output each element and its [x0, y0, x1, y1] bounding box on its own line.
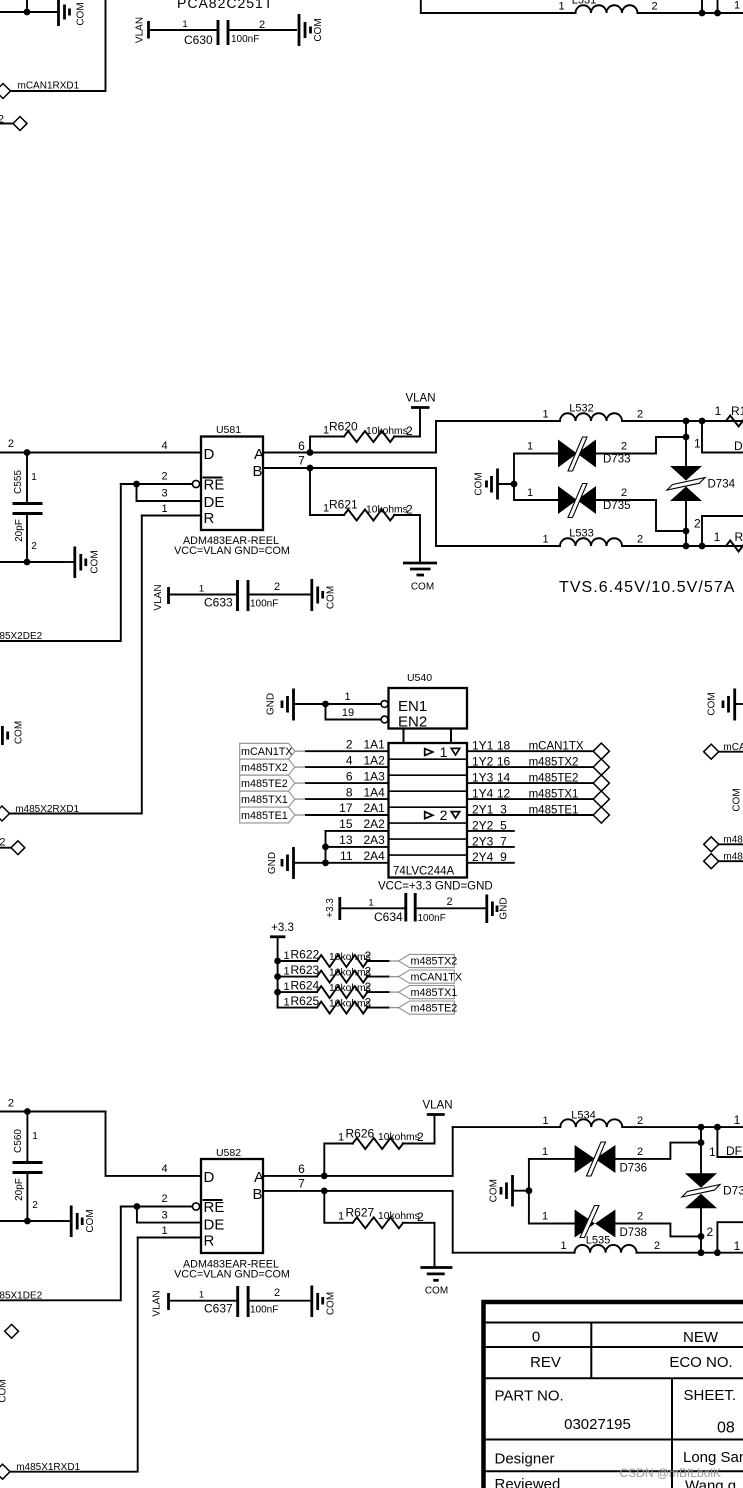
- wire 1Y4 to diamond: [467, 798, 593, 800]
- svg-text:2: 2: [446, 896, 452, 908]
- inductor L533: [542, 528, 643, 547]
- svg-text:1: 1: [734, 1113, 741, 1127]
- svg-text:2: 2: [406, 424, 413, 438]
- svg-text:10kohms: 10kohms: [366, 426, 408, 437]
- junction dot A: [321, 1173, 328, 1180]
- IC U540 main box: [389, 743, 468, 878]
- capacitor C634 100nF: [368, 893, 452, 924]
- TVS diode D737 (vertical): [682, 1127, 743, 1253]
- svg-text:COM: COM: [326, 1292, 337, 1315]
- svg-text:R620: R620: [329, 420, 358, 434]
- ground COM (rotated, left of D736/D738): [489, 1175, 513, 1207]
- stub 2Y3: [467, 846, 514, 848]
- svg-text:RE: RE: [204, 477, 225, 494]
- wire D pin jog: [106, 1112, 202, 1176]
- wire: [169, 594, 238, 596]
- svg-text:D: D: [204, 1169, 215, 1186]
- resistor Rxxx (cut at right, bottom): [714, 530, 743, 552]
- junction dot: [683, 528, 690, 535]
- power VLAN (C633 left): [153, 584, 169, 610]
- svg-text:C637: C637: [204, 1302, 233, 1316]
- wire: [11, 0, 106, 91]
- wire: [169, 1300, 238, 1302]
- svg-text:U582: U582: [216, 1147, 241, 1159]
- net flag m485TX2: [240, 759, 295, 775]
- wire EN1: [295, 703, 382, 705]
- wire: [340, 907, 406, 909]
- svg-text:PART NO.: PART NO.: [495, 1388, 564, 1405]
- wire 2Y1 to diamond: [467, 814, 593, 816]
- stub 2Y4: [467, 862, 514, 864]
- junction dot: [24, 1218, 31, 1225]
- wire (net to D pin, from left edge): [0, 452, 201, 454]
- svg-text:11: 11: [340, 849, 353, 863]
- wire A net: [263, 1127, 453, 1176]
- svg-text:D734: D734: [708, 479, 736, 491]
- junction dot: [24, 1108, 31, 1115]
- wire: [0, 561, 62, 563]
- svg-text:1: 1: [338, 1211, 344, 1223]
- svg-text:2: 2: [637, 1211, 643, 1223]
- IC U581 ADM483EAR-REEL: [174, 424, 290, 557]
- svg-text:15: 15: [339, 817, 353, 831]
- svg-text:D735: D735: [603, 500, 631, 512]
- svg-text:C630: C630: [184, 33, 213, 47]
- svg-text:m485TE2: m485TE2: [529, 773, 579, 785]
- wire: [637, 1252, 743, 1254]
- inductor L534: [542, 1110, 643, 1128]
- svg-text:08: 08: [717, 1420, 735, 1437]
- junction dot B: [307, 465, 314, 472]
- IC U582 ADM483EAR-REEL: [174, 1147, 290, 1281]
- svg-text:DE: DE: [204, 1217, 225, 1234]
- resistor R1xx (cut at right): [715, 404, 743, 427]
- svg-text:1: 1: [542, 1146, 548, 1158]
- svg-text:1: 1: [284, 950, 290, 962]
- svg-text:COM: COM: [85, 1209, 96, 1232]
- svg-text:m485TE2: m485TE2: [241, 778, 288, 790]
- ground COM (rotated, right of C630): [299, 14, 324, 46]
- wire RE: [121, 1206, 193, 1208]
- svg-text:2: 2: [365, 949, 372, 963]
- svg-text:1: 1: [558, 1, 564, 13]
- svg-text:VLAN: VLAN: [135, 17, 146, 43]
- svg-text:3: 3: [162, 488, 168, 500]
- power VLAN (C637 left): [152, 1290, 169, 1316]
- svg-text:1: 1: [199, 584, 204, 595]
- wire (top-right channel, cut off): [421, 0, 576, 13]
- svg-text:1: 1: [199, 1290, 204, 1301]
- svg-text:R621: R621: [329, 498, 358, 512]
- junction dots: [698, 1124, 705, 1131]
- svg-text:m485TE2: m485TE2: [411, 1002, 458, 1014]
- svg-text:1: 1: [715, 404, 722, 418]
- junction dot: [698, 1139, 705, 1146]
- svg-text:1: 1: [542, 409, 548, 421]
- svg-text:R: R: [735, 530, 743, 544]
- svg-text:6: 6: [298, 439, 305, 453]
- junction dot: [134, 1203, 141, 1210]
- wire: [228, 29, 296, 31]
- capacitor C637 100nF: [199, 1286, 280, 1317]
- wire: [622, 545, 743, 547]
- ground COM (rotated, below C555): [62, 547, 101, 579]
- svg-text:COM: COM: [326, 586, 337, 609]
- resistor R622 10kohms: [278, 948, 399, 968]
- svg-text:B: B: [253, 1186, 263, 1203]
- TVS diode D735: [514, 484, 686, 532]
- svg-text:R: R: [204, 1233, 215, 1250]
- svg-text:1A1: 1A1: [364, 737, 386, 751]
- svg-text:1: 1: [714, 530, 721, 544]
- svg-text:2: 2: [365, 980, 372, 994]
- wire (net to C560/D pin): [0, 1111, 106, 1113]
- svg-text:1: 1: [284, 981, 290, 993]
- svg-text:+3.3: +3.3: [325, 898, 336, 918]
- net flag m485TX2: [399, 954, 455, 967]
- wire stub up: [26, 0, 28, 12]
- svg-text:1A2: 1A2: [364, 753, 386, 767]
- svg-text:+3.3: +3.3: [271, 922, 294, 934]
- svg-text:TVS.6.45V/10.5V/57A: TVS.6.45V/10.5V/57A: [559, 579, 736, 596]
- svg-text:1: 1: [32, 1131, 38, 1142]
- svg-text:2: 2: [694, 517, 701, 531]
- svg-text:DE: DE: [204, 494, 225, 511]
- svg-text:74LVC244A: 74LVC244A: [393, 866, 454, 878]
- svg-text:CSDN @mBfLbolK: CSDN @mBfLbolK: [620, 1466, 722, 1480]
- wire stub (cut): [717, 1222, 743, 1253]
- svg-text:03027195: 03027195: [564, 1416, 631, 1433]
- ground COM (below R621): [403, 563, 437, 593]
- svg-text:m485TX1: m485TX1: [411, 987, 458, 999]
- junction dots: [699, 10, 706, 17]
- svg-text:1: 1: [284, 966, 290, 978]
- rail: [277, 961, 279, 1008]
- junction dot: [24, 449, 31, 456]
- svg-text:10kohms: 10kohms: [366, 505, 408, 516]
- svg-text:2: 2: [346, 737, 353, 751]
- svg-text:6: 6: [346, 769, 353, 783]
- svg-text:1: 1: [368, 898, 373, 909]
- svg-text:2: 2: [621, 487, 627, 499]
- svg-text:VCC=VLAN GND=COM: VCC=VLAN GND=COM: [174, 1269, 290, 1281]
- net flag m485TX1: [399, 986, 455, 999]
- ground COM (rotated, left of D733/D735): [474, 469, 498, 500]
- svg-text:m485TX2: m485TX2: [241, 762, 288, 774]
- svg-text:1: 1: [694, 437, 701, 451]
- resistor R626 10kohms: [324, 1115, 434, 1176]
- node m485X1RXD1: [0, 1462, 81, 1479]
- power +3.3: [270, 922, 294, 961]
- svg-text:D738: D738: [620, 1227, 648, 1239]
- svg-text:m485TX1: m485TX1: [241, 794, 288, 806]
- svg-text:1: 1: [284, 997, 290, 1009]
- wire B net: [263, 1191, 453, 1253]
- svg-text:1: 1: [344, 691, 350, 703]
- svg-text:4: 4: [162, 1163, 168, 1175]
- wire m485X1DE2 riser: [0, 1207, 121, 1301]
- net flag mCAN1TX: [240, 743, 295, 759]
- svg-text:1: 1: [542, 1115, 548, 1127]
- svg-text:C634: C634: [374, 910, 403, 924]
- svg-text:1: 1: [734, 1239, 741, 1253]
- capacitor C633 100nF: [199, 580, 280, 611]
- wire: [149, 29, 219, 31]
- svg-text:R1: R1: [731, 404, 743, 418]
- wire A to L532: [436, 420, 560, 422]
- svg-text:1: 1: [734, 0, 740, 12]
- wire R pin: [138, 1237, 201, 1239]
- svg-text:mCAN1RXD1: mCAN1RXD1: [18, 81, 80, 92]
- wire B net: [263, 468, 436, 546]
- wire stubs up: [701, 0, 703, 13]
- junction dot: [698, 1233, 705, 1240]
- wire A net: [263, 421, 436, 453]
- svg-text:COM: COM: [425, 1286, 448, 1297]
- TVS diode D734 (vertical): [667, 421, 736, 546]
- svg-text:0: 0: [532, 1329, 540, 1346]
- svg-text:13: 13: [339, 833, 353, 847]
- svg-text:2: 2: [440, 807, 448, 823]
- svg-text:DF: DF: [734, 439, 743, 453]
- wire R pin: [142, 515, 201, 517]
- junction dot: [683, 434, 690, 441]
- inductor L532: [542, 403, 643, 422]
- svg-text:2: 2: [637, 1115, 643, 1127]
- svg-text:2: 2: [274, 581, 280, 593]
- TVS diode D733: [514, 437, 686, 471]
- ground GND (rotated, EN pins): [266, 689, 294, 721]
- node (partial, label 2): [0, 114, 27, 131]
- resistor R621 10kohms: [310, 468, 420, 563]
- svg-text:m485X2DE2: m485X2DE2: [0, 631, 43, 642]
- svg-text:4: 4: [162, 440, 168, 452]
- svg-text:D: D: [204, 446, 215, 463]
- wire: [638, 12, 743, 14]
- svg-text:2: 2: [637, 409, 643, 421]
- svg-text:1: 1: [542, 1211, 548, 1223]
- wire stub (cut): [702, 516, 743, 546]
- svg-text:Designer: Designer: [495, 1451, 555, 1468]
- net flag m485TX1: [240, 791, 295, 807]
- wire stub to DF (cut): [702, 421, 743, 453]
- svg-text:4: 4: [346, 753, 353, 767]
- svg-text:SHEET.: SHEET.: [684, 1387, 737, 1404]
- wire m485X1RXD1 riser: [10, 1238, 138, 1472]
- svg-text:mCAN1TX: mCAN1TX: [241, 746, 293, 758]
- svg-text:2: 2: [162, 1193, 168, 1205]
- svg-text:2: 2: [274, 1287, 280, 1299]
- svg-text:A: A: [254, 1169, 264, 1186]
- svg-text:2: 2: [8, 438, 14, 450]
- svg-text:VCC=VLAN GND=COM: VCC=VLAN GND=COM: [174, 545, 290, 557]
- ground COM (rotated, right top): [707, 689, 743, 721]
- node m485X2RXD1: [0, 804, 80, 821]
- resistor R620 10kohms: [310, 408, 420, 453]
- svg-text:RE: RE: [204, 1199, 225, 1216]
- wire: [622, 1126, 743, 1128]
- svg-text:PCA82C251T: PCA82C251T: [177, 0, 273, 11]
- wire COM to TVS pair: [498, 483, 515, 485]
- wire RE-DE tie: [137, 1207, 201, 1223]
- svg-text:m485X1RXD1: m485X1RXD1: [16, 1462, 80, 1473]
- inversion bubble RE: [192, 1203, 199, 1210]
- wire: [622, 420, 743, 422]
- svg-text:2: 2: [651, 1, 657, 13]
- wire stub to DF (cut): [717, 1127, 743, 1157]
- junction dots: [683, 543, 690, 550]
- svg-text:1A3: 1A3: [364, 769, 386, 783]
- svg-text:COM: COM: [474, 472, 485, 495]
- svg-text:m485TE1: m485TE1: [529, 804, 579, 816]
- svg-text:100nF: 100nF: [250, 1305, 278, 1316]
- inversion bubble EN2: [381, 716, 388, 723]
- svg-text:GND: GND: [267, 852, 278, 874]
- svg-text:GND: GND: [499, 897, 510, 919]
- stub 2Y2: [467, 830, 514, 832]
- inductor L535: [560, 1240, 660, 1253]
- wire (top-left partial net): [0, 11, 58, 13]
- svg-text:R623: R623: [291, 963, 320, 977]
- junction dots: [683, 418, 690, 425]
- svg-text:2: 2: [31, 541, 37, 552]
- svg-text:Reviewed: Reviewed: [495, 1476, 561, 1488]
- svg-text:3: 3: [162, 1210, 168, 1222]
- svg-text:R: R: [204, 510, 215, 527]
- svg-text:10kohms: 10kohms: [378, 1132, 420, 1143]
- svg-text:COM: COM: [411, 582, 434, 593]
- svg-text:2: 2: [0, 837, 6, 849]
- svg-text:2: 2: [621, 441, 627, 453]
- wire A to L534: [453, 1126, 561, 1128]
- svg-text:R627: R627: [346, 1206, 375, 1220]
- svg-text:1: 1: [542, 534, 548, 546]
- resistor R627 10kohms: [324, 1191, 434, 1268]
- capacitor C555 20pF: [13, 453, 43, 563]
- svg-text:m485X2RXD1: m485X2RXD1: [15, 804, 79, 815]
- svg-text:COM: COM: [90, 550, 101, 573]
- svg-text:1: 1: [338, 1132, 344, 1144]
- svg-text:1: 1: [31, 472, 37, 483]
- wire m485X2RXD1 riser: [10, 516, 142, 814]
- svg-text:6: 6: [298, 1162, 305, 1176]
- svg-text:C555: C555: [13, 470, 24, 494]
- wires 2A2/2A3/2A4 to GND: [326, 830, 389, 832]
- svg-text:DF: DF: [726, 1144, 742, 1158]
- svg-text:B: B: [253, 463, 263, 480]
- svg-text:100nF: 100nF: [250, 599, 278, 610]
- junction dot: [24, 559, 31, 566]
- resistor R623 10kohms: [278, 963, 399, 983]
- ground GND (rotated, right of C634): [487, 895, 510, 924]
- wire B to L533: [436, 545, 560, 547]
- wire RE: [121, 483, 193, 485]
- svg-text:C560: C560: [13, 1129, 24, 1153]
- svg-text:ECO NO.: ECO NO.: [669, 1354, 732, 1371]
- junction dot: [24, 9, 31, 16]
- junction dot: [133, 481, 140, 488]
- wire: [0, 1220, 62, 1222]
- ground COM (partial at left edge, y~732): [2, 721, 24, 745]
- ground GND (rotated, 2A pins): [267, 847, 294, 879]
- node diamond (floating): [5, 1324, 19, 1338]
- svg-text:7: 7: [298, 1177, 305, 1191]
- svg-text:2: 2: [162, 471, 168, 483]
- svg-text:VLAN: VLAN: [152, 1290, 163, 1316]
- svg-text:U540: U540: [407, 672, 432, 684]
- svg-text:VLAN: VLAN: [153, 584, 164, 610]
- svg-text:1: 1: [709, 1145, 716, 1159]
- node mCAN1RXD1: [0, 81, 80, 99]
- svg-text:1: 1: [440, 744, 448, 760]
- svg-text:U581: U581: [216, 424, 241, 436]
- resistor R624 10kohms: [278, 979, 399, 999]
- junction dots: [698, 1249, 705, 1256]
- inversion bubble RE: [192, 480, 199, 487]
- svg-text:7: 7: [298, 454, 305, 468]
- svg-text:VLAN: VLAN: [405, 393, 435, 405]
- net flag m485TE2: [240, 775, 295, 791]
- svg-text:2: 2: [417, 1210, 424, 1224]
- svg-text:19: 19: [342, 707, 354, 719]
- svg-text:COM: COM: [0, 1379, 9, 1402]
- svg-text:2A3: 2A3: [364, 833, 386, 847]
- svg-text:R622: R622: [291, 948, 320, 962]
- svg-text:1: 1: [182, 19, 187, 30]
- power +3.3 (rotated, C634 left): [325, 897, 340, 920]
- node m48... (cut): [704, 852, 743, 869]
- ground COM (rotated, right of C633): [312, 579, 337, 611]
- svg-text:2: 2: [707, 1225, 714, 1239]
- svg-text:mCAN1TX: mCAN1TX: [411, 971, 463, 983]
- svg-text:8: 8: [346, 785, 353, 799]
- svg-text:R626: R626: [346, 1127, 375, 1141]
- svg-text:m485TE1: m485TE1: [241, 810, 288, 822]
- svg-text:2: 2: [637, 1146, 643, 1158]
- TVS diode D738: [529, 1206, 701, 1240]
- svg-text:1A4: 1A4: [364, 785, 386, 799]
- wire: [248, 594, 311, 596]
- TVS diode D736: [529, 1142, 701, 1176]
- svg-text:Long San: Long San: [683, 1449, 743, 1466]
- junction dot B: [321, 1188, 328, 1195]
- power VLAN: [422, 1100, 452, 1115]
- svg-text:R625: R625: [291, 994, 320, 1008]
- svg-text:1: 1: [162, 503, 168, 515]
- svg-text:1: 1: [162, 1225, 168, 1237]
- svg-text:20pF: 20pF: [14, 1178, 25, 1201]
- svg-text:GND: GND: [266, 693, 277, 715]
- ground COM (rotated, right of C637): [312, 1286, 337, 1318]
- svg-text:100nF: 100nF: [418, 913, 446, 924]
- svg-text:2: 2: [8, 1098, 14, 1110]
- ground COM (rotated, top-left): [59, 0, 87, 26]
- ground COM (below R627): [420, 1268, 452, 1297]
- svg-text:D737: D737: [723, 1184, 743, 1198]
- svg-text:1: 1: [560, 1240, 566, 1252]
- svg-text:2: 2: [406, 503, 413, 517]
- svg-text:NEW: NEW: [683, 1329, 719, 1346]
- net flag m485TE2: [399, 1001, 455, 1014]
- wire B to L535: [453, 1252, 575, 1254]
- svg-text:COM: COM: [14, 721, 25, 744]
- svg-text:1: 1: [527, 487, 533, 499]
- svg-text:100nF: 100nF: [231, 34, 259, 45]
- net flag m485TE1: [240, 807, 295, 823]
- junction dot A: [307, 449, 314, 456]
- wire RE-DE tie: [137, 484, 202, 501]
- svg-text:2A1: 2A1: [364, 801, 386, 815]
